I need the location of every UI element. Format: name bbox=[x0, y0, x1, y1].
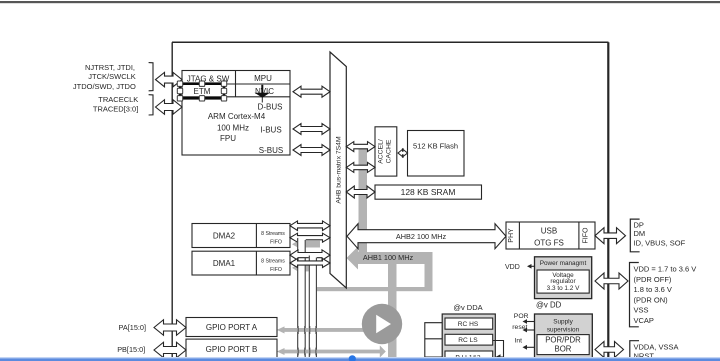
svg-text:VDDA, VSSA: VDDA, VSSA bbox=[634, 343, 679, 352]
svg-text:I-BUS: I-BUS bbox=[260, 125, 281, 134]
svg-text:supervision: supervision bbox=[547, 326, 580, 333]
svg-text:AHB2 100 MHz: AHB2 100 MHz bbox=[396, 232, 447, 241]
svg-text:VSS: VSS bbox=[634, 306, 649, 315]
svg-text:ID, VBUS, SOF: ID, VBUS, SOF bbox=[634, 238, 686, 247]
svg-text:ETM: ETM bbox=[194, 87, 211, 96]
svg-text:MPU: MPU bbox=[254, 74, 272, 83]
svg-text:RC HS: RC HS bbox=[458, 321, 479, 328]
svg-text:ARM Cortex-M4: ARM Cortex-M4 bbox=[208, 112, 266, 121]
svg-text:DM: DM bbox=[634, 229, 646, 238]
svg-text:@v DD: @v DD bbox=[536, 301, 562, 310]
svg-text:CACHE: CACHE bbox=[386, 139, 393, 163]
svg-text:VDD: VDD bbox=[505, 264, 520, 271]
svg-text:(PDR ON): (PDR ON) bbox=[634, 295, 669, 304]
svg-text:DMA1: DMA1 bbox=[213, 259, 236, 268]
svg-text:OTG FS: OTG FS bbox=[534, 238, 564, 247]
svg-text:regulator: regulator bbox=[550, 278, 576, 285]
svg-text:1.8 to 3.6 V: 1.8 to 3.6 V bbox=[634, 285, 672, 294]
svg-text:FPU: FPU bbox=[220, 134, 236, 143]
svg-text:FIFO: FIFO bbox=[270, 240, 282, 246]
svg-text:128 KB SRAM: 128 KB SRAM bbox=[401, 187, 456, 197]
svg-text:S-BUS: S-BUS bbox=[259, 146, 283, 155]
svg-text:Int: Int bbox=[515, 338, 523, 345]
svg-text:Supply: Supply bbox=[553, 318, 573, 325]
svg-text:3.3 to 1.2 V: 3.3 to 1.2 V bbox=[547, 285, 580, 292]
svg-text:@v DDA: @v DDA bbox=[453, 303, 482, 312]
svg-text:JTDO/SWD, JTDO: JTDO/SWD, JTDO bbox=[73, 82, 136, 91]
svg-text:JTCK/SWCLK: JTCK/SWCLK bbox=[88, 72, 136, 81]
svg-text:FIFO: FIFO bbox=[270, 267, 282, 273]
svg-text:ACCEL/: ACCEL/ bbox=[378, 139, 385, 164]
svg-text:USB: USB bbox=[541, 226, 557, 235]
svg-text:D-BUS: D-BUS bbox=[258, 103, 283, 112]
svg-text:8 Streams: 8 Streams bbox=[261, 259, 285, 265]
svg-text:100 MHz: 100 MHz bbox=[217, 123, 249, 132]
svg-text:VDD = 1.7 to 3.6 V: VDD = 1.7 to 3.6 V bbox=[634, 265, 697, 274]
svg-text:POR/PDR: POR/PDR bbox=[545, 335, 581, 344]
svg-text:PB[15:0]: PB[15:0] bbox=[117, 345, 145, 354]
svg-text:NJTRST, JTDI,: NJTRST, JTDI, bbox=[85, 63, 135, 72]
svg-text:TRACECLK: TRACECLK bbox=[98, 95, 138, 104]
svg-text:TRACED[3:0]: TRACED[3:0] bbox=[93, 105, 138, 114]
svg-text:PA[15:0]: PA[15:0] bbox=[119, 323, 146, 332]
svg-text:8 Streams: 8 Streams bbox=[261, 231, 285, 237]
svg-text:VCAP: VCAP bbox=[634, 316, 654, 325]
svg-text:AHB bus-matrix 7S4M: AHB bus-matrix 7S4M bbox=[336, 136, 343, 204]
svg-text:AHB1 100 MHz: AHB1 100 MHz bbox=[363, 253, 414, 262]
svg-text:BOR: BOR bbox=[555, 344, 572, 353]
svg-text:PHY: PHY bbox=[508, 228, 515, 243]
svg-text:DP: DP bbox=[634, 220, 644, 229]
svg-text:FIFO: FIFO bbox=[582, 227, 589, 243]
svg-text:RC LS: RC LS bbox=[458, 337, 478, 344]
svg-text:GPIO PORT B: GPIO PORT B bbox=[206, 345, 258, 354]
svg-text:POR: POR bbox=[514, 313, 529, 320]
svg-text:(PDR OFF): (PDR OFF) bbox=[634, 275, 672, 284]
svg-text:DMA2: DMA2 bbox=[213, 231, 236, 240]
svg-text:GPIO PORT A: GPIO PORT A bbox=[206, 323, 258, 332]
svg-text:512 KB Flash: 512 KB Flash bbox=[413, 142, 458, 151]
svg-text:Power managmt: Power managmt bbox=[540, 260, 587, 267]
